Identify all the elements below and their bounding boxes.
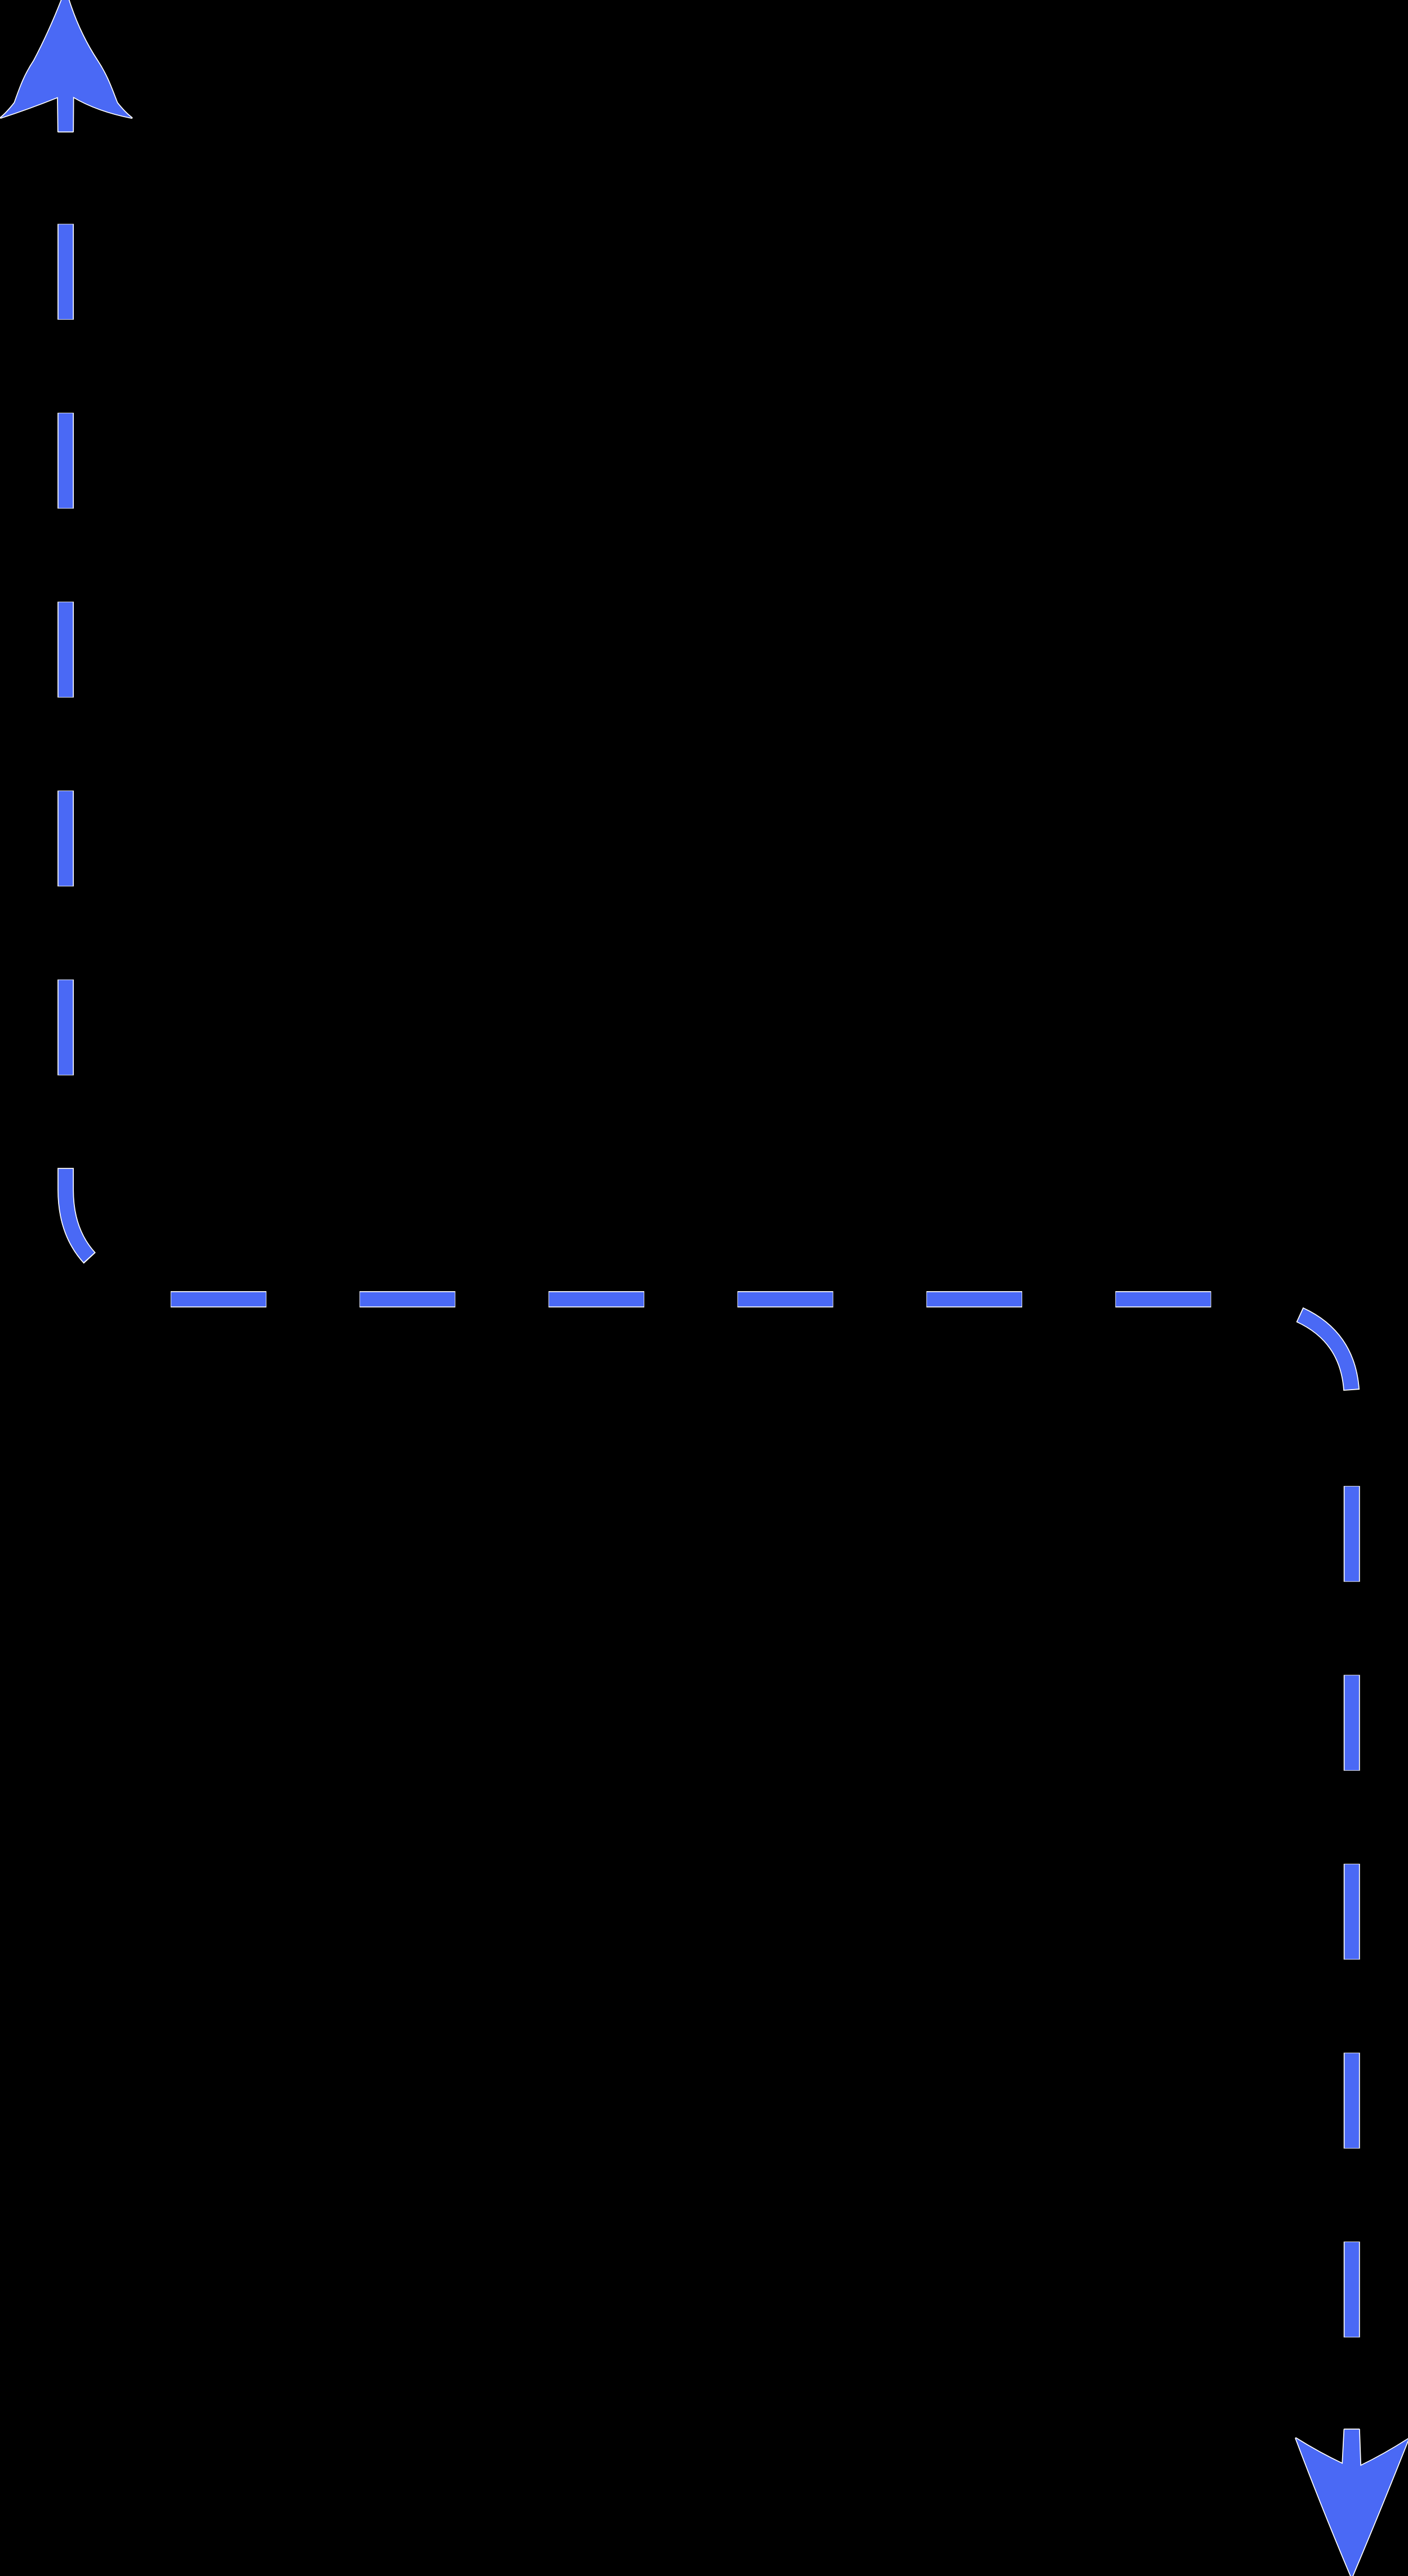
wire horizontal dash 6 — [1116, 1292, 1210, 1307]
wire left corner curved dash casing — [66, 1168, 226, 1299]
wire right vertical dash 5 casing — [1344, 2242, 1360, 2337]
wire left vertical dash 5 casing — [57, 791, 74, 886]
wire left vertical dash 3 — [59, 413, 73, 508]
wire horizontal dash 5 — [927, 1292, 1022, 1307]
wire horizontal dash 5 casing — [926, 1291, 1022, 1307]
wire horizontal dash 6 casing — [1115, 1291, 1211, 1307]
wire horizontal dash 4 — [738, 1292, 832, 1307]
wire right vertical dash 5 — [1344, 2242, 1359, 2337]
wire right vertical dash 4 casing — [1344, 2053, 1360, 2149]
wire left vertical dash 3 casing — [57, 413, 74, 508]
wire right vertical dash 3 — [1344, 1864, 1359, 1959]
wire right vertical dash 2 casing — [1344, 1675, 1360, 1771]
wire right corner curved dash casing — [1210, 1300, 1352, 1400]
wire left vertical dash 4 — [59, 602, 73, 697]
wire left vertical dash 6 — [59, 980, 73, 1075]
wire horizontal dash 4 casing — [737, 1291, 833, 1307]
down arrow casing — [1296, 2430, 1408, 2576]
up arrow head — [1, 0, 132, 132]
down arrow head — [1296, 2430, 1408, 2576]
wire right vertical dash 1 casing — [1344, 1486, 1360, 1582]
up arrow casing — [1, 0, 132, 132]
wire horizontal dash 3 casing — [549, 1291, 644, 1307]
wire left vertical dash 6 casing — [57, 980, 74, 1075]
wire left vertical dash 4 casing — [57, 602, 74, 698]
wire right vertical dash 3 casing — [1344, 1864, 1360, 1959]
wire right vertical dash 2 — [1344, 1676, 1359, 1770]
wire right vertical dash 4 — [1344, 2053, 1359, 2148]
wire right corner curved dash — [1210, 1300, 1352, 1400]
wire right vertical dash 1 — [1344, 1486, 1359, 1581]
wire horizontal dash 1 — [171, 1292, 266, 1307]
wire left corner curved dash — [66, 1169, 226, 1300]
wire left vertical dash 2 casing — [57, 224, 74, 320]
wire left vertical dash 2 — [59, 225, 73, 319]
wire horizontal dash 1 casing — [171, 1291, 266, 1307]
wire horizontal dash 2 — [360, 1292, 455, 1307]
wire horizontal dash 2 casing — [359, 1291, 455, 1307]
wire horizontal dash 3 — [549, 1292, 644, 1307]
wire left vertical dash 5 — [59, 791, 73, 886]
